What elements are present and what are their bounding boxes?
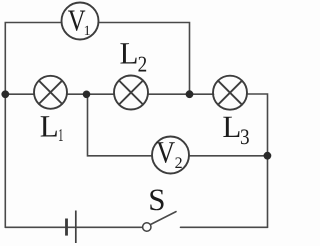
svg-text:2: 2 xyxy=(138,51,148,76)
svg-text:L: L xyxy=(120,35,139,70)
svg-text:V: V xyxy=(156,135,176,170)
svg-text:2: 2 xyxy=(175,155,183,172)
svg-text:S: S xyxy=(148,182,165,217)
svg-text:L: L xyxy=(222,109,241,144)
svg-text:L: L xyxy=(40,109,59,144)
svg-text:3: 3 xyxy=(240,124,250,149)
svg-text:1: 1 xyxy=(84,24,91,39)
svg-text:1: 1 xyxy=(58,125,64,145)
